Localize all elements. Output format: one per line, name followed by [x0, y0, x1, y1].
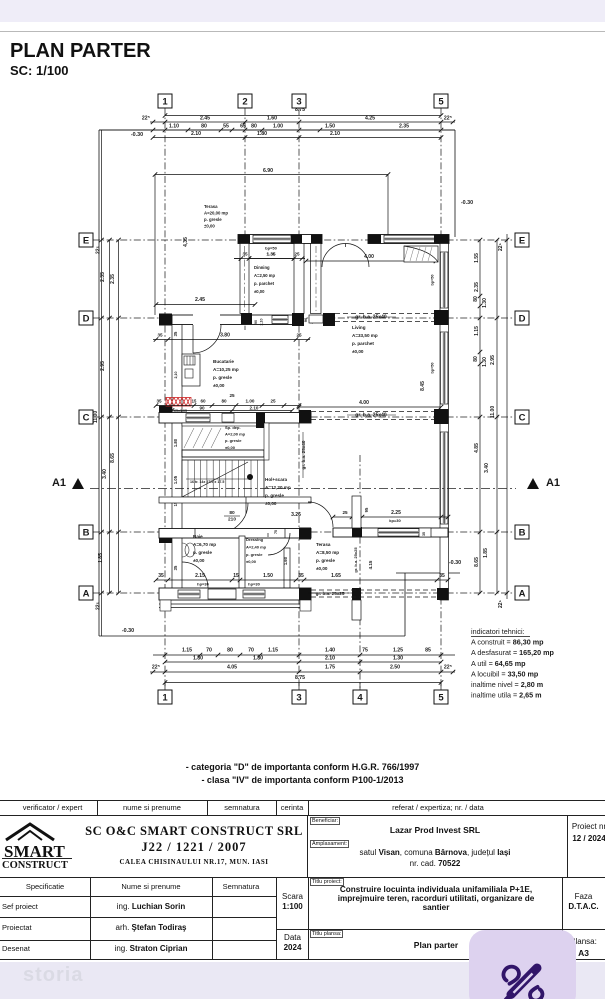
- svg-text:22⁵: 22⁵: [152, 665, 161, 671]
- svg-text:Hol+scara: Hol+scara: [265, 477, 288, 482]
- svg-text:A=20,00 mp: A=20,00 mp: [204, 211, 228, 216]
- svg-text:35: 35: [298, 573, 304, 579]
- svg-text:p. parchet: p. parchet: [254, 281, 275, 286]
- svg-text:4.25: 4.25: [365, 116, 375, 122]
- svg-text:±0,00: ±0,00: [254, 289, 265, 294]
- svg-text:hp=30: hp=30: [248, 582, 260, 587]
- svg-text:Sp. dep.: Sp. dep.: [225, 425, 241, 430]
- svg-text:3.80: 3.80: [220, 333, 230, 339]
- svg-text:A=6,70 mp: A=6,70 mp: [193, 542, 216, 547]
- svg-text:8.65: 8.65: [474, 557, 480, 567]
- svg-text:25: 25: [270, 399, 276, 404]
- svg-text:kp=30: kp=30: [389, 518, 401, 523]
- svg-text:1.65: 1.65: [331, 573, 341, 579]
- svg-text:25: 25: [342, 510, 348, 515]
- svg-text:p. gresle: p. gresle: [213, 375, 232, 380]
- svg-text:±0,00: ±0,00: [265, 501, 277, 506]
- svg-text:3: 3: [296, 692, 301, 703]
- svg-text:80: 80: [227, 648, 233, 654]
- svg-text:2.10: 2.10: [325, 656, 335, 662]
- svg-text:80: 80: [229, 510, 235, 516]
- svg-text:1: 1: [162, 96, 168, 107]
- svg-text:2.45: 2.45: [195, 297, 205, 303]
- svg-text:1.15: 1.15: [474, 326, 480, 336]
- svg-text:80: 80: [201, 124, 207, 130]
- svg-text:1.60: 1.60: [267, 116, 277, 122]
- svg-text:A util = 64,65 mp: A util = 64,65 mp: [471, 659, 526, 668]
- svg-text:80: 80: [473, 356, 479, 362]
- svg-text:22⁵: 22⁵: [142, 116, 151, 122]
- svg-text:1.30: 1.30: [482, 357, 488, 367]
- svg-text:1.55: 1.55: [474, 253, 480, 263]
- svg-text:3.40: 3.40: [102, 469, 108, 479]
- svg-text:1.75: 1.75: [325, 665, 335, 671]
- svg-text:1.80: 1.80: [173, 438, 178, 447]
- svg-text:p. gresle: p. gresle: [204, 217, 222, 222]
- svg-text:1.60: 1.60: [283, 556, 288, 565]
- svg-text:15: 15: [192, 399, 197, 404]
- svg-text:8.65: 8.65: [110, 453, 116, 463]
- svg-text:1.30: 1.30: [393, 656, 403, 662]
- svg-text:22⁵: 22⁵: [498, 599, 504, 608]
- svg-text:22⁵: 22⁵: [444, 116, 453, 122]
- svg-text:35: 35: [158, 573, 164, 579]
- svg-text:35: 35: [242, 252, 248, 257]
- svg-text:11.00: 11.00: [93, 411, 99, 423]
- svg-text:inaltime nivel = 2,80 m: inaltime nivel = 2,80 m: [471, 680, 543, 689]
- svg-text:A: A: [519, 588, 526, 599]
- svg-text:70: 70: [206, 648, 212, 654]
- svg-text:25: 25: [296, 333, 302, 338]
- svg-text:B: B: [519, 527, 526, 538]
- svg-text:Terasa: Terasa: [316, 542, 331, 547]
- svg-text:gr. b.a. 25x40: gr. b.a. 25x40: [355, 315, 387, 321]
- svg-text:8.75: 8.75: [295, 675, 305, 681]
- svg-text:80: 80: [221, 399, 227, 404]
- svg-text:C: C: [519, 412, 526, 423]
- svg-text:±0,00: ±0,00: [225, 445, 236, 450]
- svg-text:gr. b.a. 25x25: gr. b.a. 25x25: [353, 547, 358, 573]
- svg-text:A desfasurat = 165,20 mp: A desfasurat = 165,20 mp: [471, 648, 555, 657]
- svg-text:p. gresle: p. gresle: [265, 493, 284, 498]
- svg-text:bp=50: bp=50: [431, 362, 435, 373]
- svg-text:Terasa: Terasa: [204, 204, 218, 209]
- svg-text:±0,00: ±0,00: [246, 559, 257, 564]
- svg-text:1.50: 1.50: [263, 573, 273, 579]
- svg-text:1.30: 1.30: [482, 298, 488, 308]
- svg-text:22⁵: 22⁵: [444, 665, 453, 671]
- svg-text:35: 35: [157, 333, 163, 338]
- svg-text:3: 3: [296, 96, 301, 107]
- svg-text:75: 75: [274, 530, 278, 534]
- svg-text:A=2,00 mp: A=2,00 mp: [225, 432, 246, 437]
- svg-text:85: 85: [425, 648, 431, 654]
- svg-text:A=10,25 mp: A=10,25 mp: [213, 367, 239, 372]
- svg-text:2,10: 2,10: [260, 319, 264, 326]
- svg-text:Bucatarie: Bucatarie: [213, 359, 234, 364]
- svg-text:C: C: [83, 412, 90, 423]
- svg-text:1.10: 1.10: [169, 124, 179, 130]
- svg-text:gr. b.a. 25x40: gr. b.a. 25x40: [355, 413, 387, 419]
- svg-text:bp=50: bp=50: [265, 246, 277, 251]
- svg-text:-0.30: -0.30: [449, 560, 461, 566]
- svg-text:35: 35: [439, 573, 445, 579]
- svg-text:22⁵: 22⁵: [498, 242, 504, 251]
- svg-text:1.50: 1.50: [325, 124, 335, 130]
- svg-text:1.80: 1.80: [253, 656, 263, 662]
- svg-text:-0.30: -0.30: [122, 628, 134, 634]
- svg-text:35: 35: [156, 399, 162, 404]
- svg-text:2.35: 2.35: [399, 124, 409, 130]
- svg-text:1.05: 1.05: [173, 475, 178, 484]
- svg-text:A1: A1: [52, 477, 66, 489]
- svg-text:35: 35: [173, 565, 178, 570]
- svg-text:A=33,50 mp: A=33,50 mp: [352, 333, 378, 338]
- svg-text:3.26: 3.26: [291, 512, 301, 518]
- svg-text:1.80: 1.80: [193, 656, 203, 662]
- svg-text:-0.30: -0.30: [461, 200, 473, 206]
- svg-text:A1: A1: [546, 477, 560, 489]
- svg-text:1.15: 1.15: [268, 648, 278, 654]
- svg-text:p. gresle: p. gresle: [316, 558, 335, 563]
- svg-text:p. gresle: p. gresle: [246, 552, 263, 557]
- svg-text:±0,00: ±0,00: [316, 566, 328, 571]
- svg-text:A=2,40 mp: A=2,40 mp: [246, 544, 267, 549]
- svg-text:15: 15: [233, 573, 239, 579]
- svg-text:4,35: 4,35: [183, 237, 189, 247]
- svg-text:A: A: [83, 588, 90, 599]
- svg-text:11.00: 11.00: [490, 406, 496, 418]
- svg-text:E: E: [519, 235, 525, 246]
- svg-text:Dressing: Dressing: [246, 537, 264, 542]
- svg-text:16 tr. 14x 27/5 x 17.5: 16 tr. 14x 27/5 x 17.5: [190, 480, 224, 484]
- svg-text:D: D: [83, 313, 90, 324]
- svg-text:±0,00: ±0,00: [204, 224, 215, 229]
- svg-text:2.45: 2.45: [200, 116, 210, 122]
- svg-text:1.15: 1.15: [182, 648, 192, 654]
- svg-text:p. gresle: p. gresle: [225, 438, 242, 443]
- svg-text:2.10: 2.10: [191, 131, 201, 137]
- svg-text:±0,00: ±0,00: [193, 558, 205, 563]
- svg-text:A=8,50 mp: A=8,50 mp: [316, 550, 339, 555]
- svg-text:inaltime utila = 2,65 m: inaltime utila = 2,65 m: [471, 691, 542, 700]
- svg-text:1.00: 1.00: [246, 399, 255, 404]
- svg-text:4.85: 4.85: [474, 443, 480, 453]
- svg-text:60: 60: [200, 399, 206, 404]
- svg-text:A locuibil = 33,50 mp: A locuibil = 33,50 mp: [471, 669, 539, 678]
- svg-text:90: 90: [199, 406, 205, 411]
- svg-text:4.00: 4.00: [364, 254, 374, 260]
- svg-text:1: 1: [162, 692, 168, 703]
- svg-text:65: 65: [240, 124, 246, 130]
- svg-text:2,10: 2,10: [174, 372, 178, 379]
- svg-text:±0,00: ±0,00: [213, 383, 225, 388]
- svg-text:A=2,50 mp: A=2,50 mp: [254, 273, 276, 278]
- svg-text:5: 5: [438, 692, 444, 703]
- svg-text:90: 90: [254, 320, 258, 324]
- svg-text:2.35: 2.35: [110, 274, 116, 284]
- svg-text:80: 80: [251, 124, 257, 130]
- svg-text:2.25: 2.25: [391, 510, 401, 516]
- svg-text:75: 75: [362, 648, 368, 654]
- svg-text:1.00: 1.00: [273, 124, 283, 130]
- svg-text:indicatori tehnici:: indicatori tehnici:: [471, 627, 525, 636]
- svg-text:70: 70: [248, 648, 254, 654]
- svg-text:3.40: 3.40: [484, 463, 490, 473]
- svg-text:1.40: 1.40: [325, 648, 335, 654]
- svg-text:A=12,20 mp: A=12,20 mp: [265, 485, 291, 490]
- svg-text:4.15: 4.15: [368, 560, 373, 569]
- svg-text:22⁵: 22⁵: [96, 601, 102, 610]
- svg-text:6.90: 6.90: [263, 168, 273, 174]
- svg-text:25: 25: [229, 393, 235, 398]
- svg-text:55: 55: [223, 124, 229, 130]
- svg-text:±0,00: ±0,00: [352, 349, 364, 354]
- svg-text:Baie: Baie: [193, 534, 203, 539]
- svg-text:bp=50: bp=50: [431, 274, 435, 285]
- svg-text:1.80: 1.80: [257, 131, 267, 137]
- svg-text:5: 5: [438, 96, 444, 107]
- svg-text:1.35: 1.35: [267, 252, 276, 257]
- svg-text:gr. b.a. 25x25: gr. b.a. 25x25: [316, 591, 345, 596]
- svg-text:2.10: 2.10: [250, 406, 259, 411]
- svg-text:35: 35: [173, 331, 178, 336]
- svg-text:2: 2: [242, 96, 247, 107]
- svg-text:A construit = 86,30 mp: A construit = 86,30 mp: [471, 638, 544, 647]
- svg-text:1.85: 1.85: [98, 553, 104, 563]
- svg-text:2.50: 2.50: [390, 665, 400, 671]
- svg-text:80: 80: [473, 296, 479, 302]
- svg-text:Living: Living: [352, 325, 366, 330]
- svg-text:4: 4: [357, 692, 363, 703]
- svg-text:gr. b.a. 25x40: gr. b.a. 25x40: [301, 440, 306, 469]
- svg-text:95: 95: [364, 507, 369, 512]
- svg-text:p. gresle: p. gresle: [193, 550, 212, 555]
- svg-text:8.45: 8.45: [420, 381, 426, 391]
- svg-text:2.35: 2.35: [100, 272, 106, 282]
- svg-text:2.95: 2.95: [490, 355, 496, 365]
- svg-text:1.25: 1.25: [393, 648, 403, 654]
- svg-text:4.00: 4.00: [359, 400, 369, 406]
- svg-text:-0.30: -0.30: [131, 132, 143, 138]
- svg-text:p. parchet: p. parchet: [352, 341, 374, 346]
- svg-text:2.35: 2.35: [474, 282, 480, 292]
- svg-text:D: D: [519, 313, 526, 324]
- svg-text:210: 210: [228, 517, 236, 523]
- svg-text:25: 25: [294, 252, 300, 257]
- svg-text:2.95: 2.95: [100, 361, 106, 371]
- svg-text:2.10: 2.10: [330, 131, 340, 137]
- svg-text:Dinning: Dinning: [254, 265, 270, 270]
- svg-text:1.85: 1.85: [483, 548, 489, 558]
- svg-text:E: E: [83, 235, 89, 246]
- svg-text:22⁵: 22⁵: [96, 245, 102, 254]
- svg-text:35: 35: [422, 532, 426, 536]
- svg-text:4.05: 4.05: [227, 665, 237, 671]
- svg-text:B: B: [83, 527, 90, 538]
